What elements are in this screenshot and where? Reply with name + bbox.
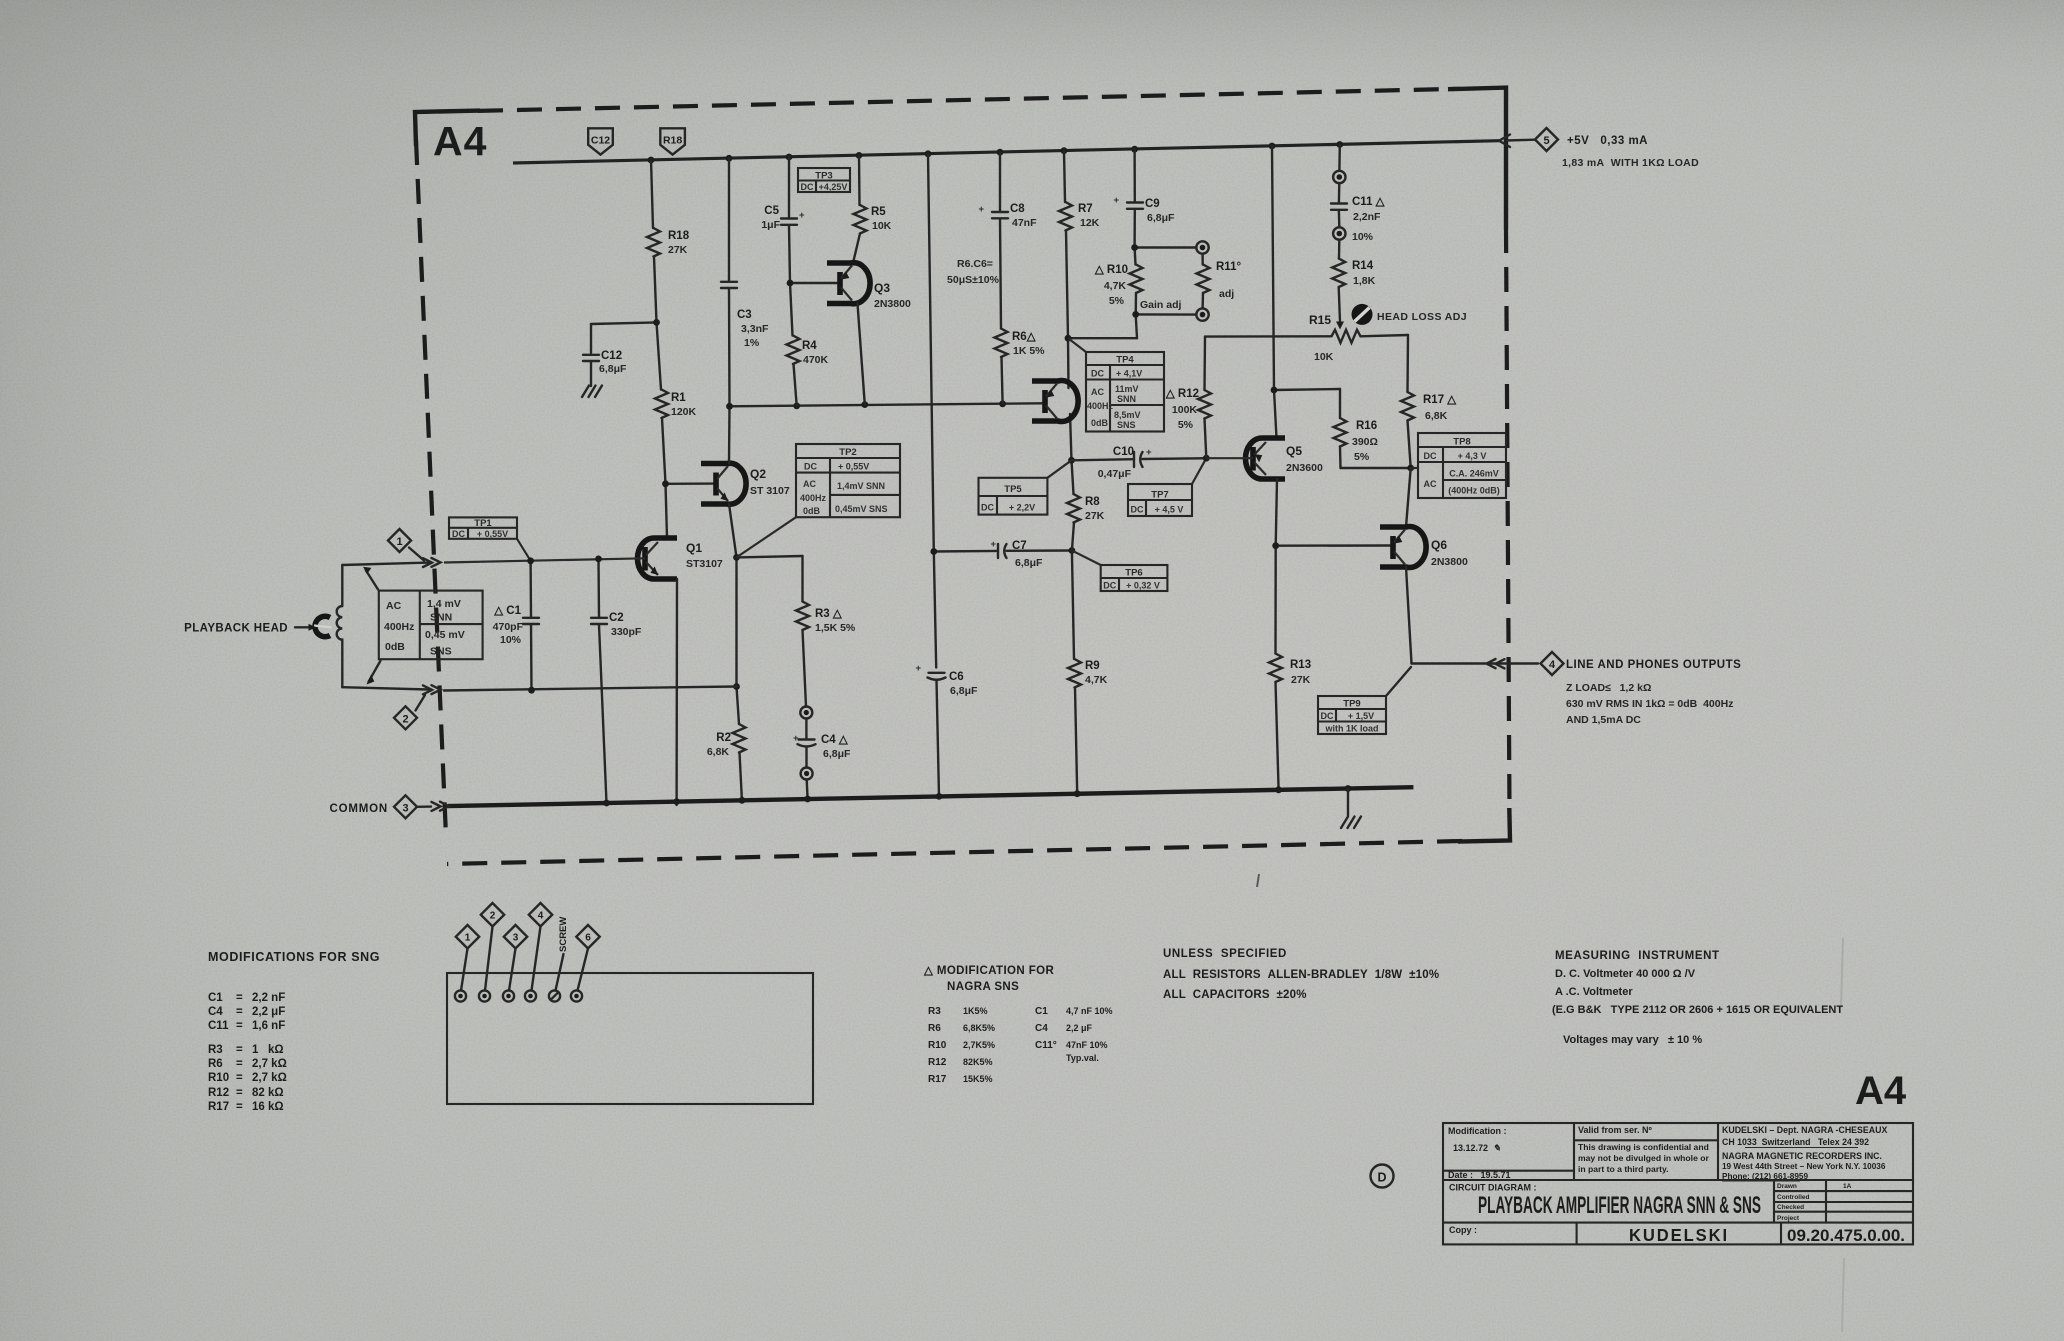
svg-text:C12: C12	[591, 135, 610, 147]
svg-text:UNLESS SPECIFIED: UNLESS SPECIFIED	[1163, 948, 1287, 960]
svg-text:PLAYBACK AMPLIFIER NAGRA SN: PLAYBACK AMPLIFIER NAGRA SNN & SNS	[1478, 1192, 1761, 1219]
svg-text:R9: R9	[1085, 660, 1100, 672]
svg-text:R10: R10	[928, 1040, 947, 1051]
svg-text:C6: C6	[949, 671, 964, 683]
svg-text:may not be divulged in whole o: may not be divulged in whole or	[1578, 1153, 1709, 1163]
svg-text:ST3107: ST3107	[686, 558, 723, 570]
svg-text:2,2 μF: 2,2 μF	[1066, 1023, 1093, 1033]
svg-text:1,4 mV: 1,4 mV	[427, 598, 461, 610]
svg-text:C8: C8	[1010, 203, 1025, 215]
svg-text:C9: C9	[1145, 198, 1160, 210]
svg-text:6,8μF: 6,8μF	[599, 363, 627, 375]
svg-text:1,6 nF: 1,6 nF	[252, 1020, 285, 1032]
svg-text:10K: 10K	[1314, 351, 1334, 363]
svg-text:Checked: Checked	[1777, 1204, 1804, 1211]
svg-text:NAGRA SNS: NAGRA SNS	[947, 981, 1019, 993]
svg-text:R17: R17	[928, 1074, 947, 1085]
svg-text:AC: AC	[803, 479, 816, 489]
svg-text:in part to a third party.: in part to a third party.	[1578, 1164, 1669, 1174]
svg-text:0,45 mV: 0,45 mV	[425, 629, 465, 641]
svg-text:DC: DC	[801, 182, 814, 192]
svg-text:11mV: 11mV	[1115, 384, 1139, 394]
svg-text:R8: R8	[1085, 496, 1100, 508]
svg-text:Q3: Q3	[874, 281, 890, 295]
svg-text:R6: R6	[928, 1023, 941, 1034]
svg-text:82K5%: 82K5%	[963, 1057, 993, 1067]
svg-text:△ R12: △ R12	[1165, 388, 1199, 400]
svg-text:AND 1,5mA DC: AND 1,5mA DC	[1566, 714, 1641, 726]
svg-text:TP3: TP3	[815, 171, 832, 182]
svg-text:4,7 nF 10%: 4,7 nF 10%	[1066, 1006, 1113, 1016]
svg-text:C3: C3	[737, 309, 752, 321]
svg-text:+: +	[1146, 447, 1152, 458]
svg-text:Copy :: Copy :	[1449, 1225, 1477, 1235]
svg-text:DC: DC	[1103, 581, 1116, 591]
svg-text:5%: 5%	[1109, 295, 1125, 307]
svg-text:R12: R12	[208, 1087, 229, 1099]
svg-text:C10: C10	[1113, 446, 1134, 458]
svg-text:LINE AND PHONES OUTPUTS: LINE AND PHONES OUTPUTS	[1566, 659, 1741, 671]
svg-text:10K: 10K	[872, 220, 892, 232]
svg-text:82 kΩ: 82 kΩ	[252, 1087, 284, 1099]
svg-text:1,83 mA WITH 1KΩ LOAD: 1,83 mA WITH 1KΩ LOAD	[1562, 157, 1699, 169]
svg-text:(E.G B&K TYPE 2112 OR 26: (E.G B&K TYPE 2112 OR 2606 + 1615 OR EQU…	[1552, 1004, 1843, 1016]
svg-text:1 kΩ: 1 kΩ	[252, 1044, 284, 1056]
svg-text:100K: 100K	[1172, 404, 1198, 416]
svg-text:AC: AC	[1091, 387, 1104, 397]
svg-text:R16: R16	[1356, 420, 1377, 432]
svg-text:R13: R13	[1290, 659, 1311, 671]
svg-text:6: 6	[585, 933, 591, 944]
svg-text:DC: DC	[981, 503, 994, 513]
svg-text:DC: DC	[1131, 505, 1144, 515]
svg-text:400Hz: 400Hz	[1087, 401, 1114, 411]
svg-text:47nF 10%: 47nF 10%	[1066, 1040, 1108, 1050]
svg-text:adj: adj	[1219, 288, 1234, 300]
svg-text:5%: 5%	[1354, 451, 1370, 463]
svg-text:Phone: (212) 661-8959: Phone: (212) 661-8959	[1722, 1172, 1808, 1181]
svg-text:470pF: 470pF	[493, 621, 524, 633]
svg-text:R6: R6	[208, 1058, 223, 1070]
svg-text:+: +	[990, 539, 996, 550]
svg-text:C11 △: C11 △	[1352, 196, 1386, 208]
svg-text:C11°: C11°	[1035, 1040, 1057, 1051]
svg-text:27K: 27K	[1085, 510, 1105, 522]
svg-text:1K5%: 1K5%	[963, 1006, 988, 1016]
svg-text:C4: C4	[1035, 1023, 1048, 1034]
svg-text:6,8K: 6,8K	[1425, 410, 1448, 422]
svg-text:Z LOAD≤ 1,2 kΩ: Z LOAD≤ 1,2 kΩ	[1566, 682, 1651, 694]
svg-text:Project: Project	[1777, 1215, 1800, 1222]
svg-text:10%: 10%	[500, 634, 522, 646]
svg-text:+ 0,55V: + 0,55V	[838, 462, 869, 472]
svg-text:Voltages may vary ± 10 %: Voltages may vary ± 10 %	[1563, 1034, 1702, 1046]
svg-text:10%: 10%	[1352, 231, 1374, 243]
svg-text:SNN: SNN	[430, 612, 452, 624]
svg-text:120K: 120K	[671, 406, 697, 418]
svg-text:+ 1,5V: + 1,5V	[1348, 711, 1374, 721]
svg-text:HEAD LOSS ADJ: HEAD LOSS ADJ	[1377, 311, 1467, 323]
svg-text:2,7K5%: 2,7K5%	[963, 1040, 995, 1050]
svg-text:6,8μF: 6,8μF	[950, 685, 978, 697]
svg-text:+ 0,32 V: + 0,32 V	[1126, 581, 1160, 591]
svg-text:DC: DC	[1424, 451, 1437, 461]
svg-text:1: 1	[396, 536, 402, 548]
svg-text:400Hz: 400Hz	[800, 493, 827, 503]
svg-text:47nF: 47nF	[1012, 217, 1037, 229]
svg-text:Gain adj: Gain adj	[1140, 299, 1182, 311]
svg-text:△ R10: △ R10	[1094, 264, 1128, 276]
svg-text:R11°: R11°	[1216, 261, 1241, 273]
svg-text:470K: 470K	[803, 354, 829, 366]
svg-text:This drawing is confidential a: This drawing is confidential and	[1578, 1142, 1709, 1152]
svg-text:=: =	[236, 1020, 243, 1032]
svg-text:=: =	[236, 992, 243, 1004]
svg-text:KUDELSKI: KUDELSKI	[1629, 1225, 1729, 1245]
svg-text:A .C. Voltmeter: A .C. Voltmeter	[1555, 986, 1633, 998]
svg-text:CH 1033 Switzerland Telex 2: CH 1033 Switzerland Telex 24 392	[1722, 1137, 1869, 1147]
svg-text:R2: R2	[716, 732, 731, 744]
svg-text:+: +	[978, 204, 984, 215]
svg-text:D. C. Voltmeter 40 000 Ω /V: D. C. Voltmeter 40 000 Ω /V	[1555, 968, 1696, 980]
svg-text:+: +	[915, 663, 921, 674]
svg-text:ALL RESISTORS ALLEN-BRADLEY: ALL RESISTORS ALLEN-BRADLEY 1/8W ±10%	[1163, 969, 1439, 981]
svg-text:R18: R18	[663, 135, 682, 147]
svg-text:1K 5%: 1K 5%	[1013, 345, 1045, 357]
svg-text:DC: DC	[1091, 369, 1104, 379]
svg-text:Q1: Q1	[686, 541, 702, 555]
svg-text:2,7 kΩ: 2,7 kΩ	[252, 1058, 287, 1070]
svg-text:27K: 27K	[668, 244, 688, 256]
svg-text:8,5mV: 8,5mV	[1114, 410, 1141, 420]
svg-text:1,4mV SNN: 1,4mV SNN	[837, 481, 885, 491]
svg-text:1: 1	[465, 933, 471, 944]
svg-text:+5V 0,33 mA: +5V 0,33 mA	[1567, 135, 1648, 147]
svg-text:ALL CAPACITORS ±20%: ALL CAPACITORS ±20%	[1163, 989, 1307, 1001]
svg-text:C.A. 246mV: C.A. 246mV	[1449, 469, 1499, 479]
svg-text:Q2: Q2	[750, 467, 766, 481]
svg-text:1A: 1A	[1843, 1183, 1852, 1190]
svg-text:Date : 19.5.71: Date : 19.5.71	[1448, 1170, 1511, 1180]
svg-text:R12: R12	[928, 1057, 947, 1068]
svg-text:R6△: R6△	[1012, 331, 1037, 343]
svg-text:4,7K: 4,7K	[1085, 674, 1108, 686]
svg-text:6,8μF: 6,8μF	[1015, 557, 1043, 569]
svg-text:C1: C1	[208, 992, 223, 1004]
svg-text:TP4: TP4	[1116, 355, 1134, 366]
svg-text:R3 △: R3 △	[815, 608, 843, 620]
svg-text:6,8K5%: 6,8K5%	[963, 1023, 995, 1033]
svg-text:C11: C11	[208, 1020, 229, 1032]
svg-text:Valid from ser. Nº: Valid from ser. Nº	[1578, 1125, 1653, 1135]
svg-text:AC: AC	[386, 600, 402, 612]
svg-text:SNN: SNN	[1117, 394, 1136, 404]
svg-text:R14: R14	[1352, 260, 1374, 272]
svg-text:=: =	[236, 1044, 243, 1056]
svg-text:A4: A4	[433, 118, 487, 164]
svg-text:=: =	[236, 1058, 243, 1070]
svg-text:0,47μF: 0,47μF	[1098, 468, 1132, 480]
svg-text:R18: R18	[668, 230, 690, 242]
svg-text:1μF: 1μF	[761, 219, 780, 231]
svg-text:+: +	[799, 210, 805, 221]
svg-text:△ MODIFICATION FOR: △ MODIFICATION FOR	[923, 965, 1054, 977]
svg-text:R4: R4	[802, 340, 817, 352]
svg-text:Controlled: Controlled	[1777, 1194, 1810, 1201]
svg-text:△ C1: △ C1	[493, 605, 521, 617]
svg-text:TP9: TP9	[1343, 699, 1360, 710]
svg-text:Typ.val.: Typ.val.	[1066, 1053, 1099, 1063]
svg-text:Q6: Q6	[1431, 538, 1447, 552]
svg-text:2,2 nF: 2,2 nF	[252, 992, 285, 1004]
svg-text:C1: C1	[1035, 1006, 1048, 1017]
svg-text:TP8: TP8	[1453, 437, 1470, 448]
svg-text:DC: DC	[452, 529, 465, 539]
svg-text:(400Hz 0dB): (400Hz 0dB)	[1448, 486, 1500, 496]
svg-text:+ 4,1V: + 4,1V	[1116, 369, 1142, 379]
svg-text:15K5%: 15K5%	[963, 1074, 993, 1084]
svg-text:A4: A4	[1855, 1069, 1907, 1113]
svg-text:SNS: SNS	[430, 646, 452, 658]
svg-text:MEASURING INSTRUMENT: MEASURING INSTRUMENT	[1555, 950, 1720, 962]
svg-text:R6.C6=: R6.C6=	[957, 258, 993, 270]
svg-text:2: 2	[402, 713, 408, 725]
svg-text:400Hz: 400Hz	[384, 621, 414, 633]
svg-text:6,8K: 6,8K	[707, 746, 730, 758]
svg-text:R1: R1	[671, 392, 686, 404]
svg-text:3,3nF: 3,3nF	[741, 323, 769, 335]
svg-text:2N3800: 2N3800	[1431, 556, 1468, 568]
svg-text:PLAYBACK HEAD: PLAYBACK HEAD	[184, 623, 288, 635]
svg-text:=: =	[236, 1101, 243, 1113]
svg-text:D: D	[1377, 1171, 1386, 1185]
svg-text:R7: R7	[1078, 203, 1093, 215]
svg-text:330pF: 330pF	[611, 626, 642, 638]
svg-text:R17: R17	[208, 1101, 229, 1113]
svg-text:630 mV RMS IN 1kΩ = 0dB 400Hz: 630 mV RMS IN 1kΩ = 0dB 400Hz	[1566, 698, 1733, 710]
svg-text:TP7: TP7	[1151, 490, 1168, 501]
svg-text:1,5K 5%: 1,5K 5%	[815, 622, 856, 634]
svg-text:TP5: TP5	[1004, 484, 1022, 495]
svg-text:6,8μF: 6,8μF	[1147, 212, 1175, 224]
svg-text:+ 0,55V: + 0,55V	[477, 529, 508, 539]
svg-text:5: 5	[1543, 135, 1549, 147]
svg-text:+ 2,2V: + 2,2V	[1009, 503, 1035, 513]
svg-text:2N3800: 2N3800	[874, 298, 911, 310]
svg-text:50μS±10%: 50μS±10%	[947, 274, 1000, 286]
svg-text:27K: 27K	[1291, 674, 1311, 686]
svg-text:=: =	[236, 1006, 243, 1018]
svg-text:2,2 μF: 2,2 μF	[252, 1006, 285, 1018]
svg-text:13.12.72 ✎: 13.12.72 ✎	[1453, 1143, 1501, 1153]
svg-text:4: 4	[538, 911, 544, 922]
svg-text:+ 4,5 V: + 4,5 V	[1155, 505, 1184, 515]
svg-text:=: =	[236, 1087, 243, 1099]
svg-text:R3: R3	[208, 1044, 223, 1056]
svg-text:Q5: Q5	[1286, 444, 1302, 458]
svg-text:COMMON: COMMON	[330, 803, 388, 815]
svg-text:MODIFICATIONS FOR SNG: MODIFICATIONS FOR SNG	[208, 950, 380, 964]
svg-text:+4,25V: +4,25V	[819, 182, 848, 192]
svg-text:Drawn: Drawn	[1777, 1183, 1797, 1190]
svg-text:SCREW: SCREW	[558, 917, 569, 952]
svg-text:Modification :: Modification :	[1448, 1126, 1507, 1136]
svg-text:R17 △: R17 △	[1423, 394, 1457, 406]
svg-text:+ 4,3 V: + 4,3 V	[1458, 451, 1487, 461]
svg-text:1,8K: 1,8K	[1353, 275, 1376, 287]
svg-text:6,8μF: 6,8μF	[823, 748, 851, 760]
svg-text:TP2: TP2	[839, 447, 856, 458]
svg-text:C7: C7	[1012, 540, 1027, 552]
svg-text:CIRCUIT DIAGRAM :: CIRCUIT DIAGRAM :	[1449, 1183, 1537, 1193]
svg-text:0dB: 0dB	[385, 641, 405, 653]
svg-text:09.20.475.0.00.: 09.20.475.0.00.	[1787, 1227, 1905, 1245]
svg-text:16 kΩ: 16 kΩ	[252, 1101, 284, 1113]
svg-text:2,7 kΩ: 2,7 kΩ	[252, 1072, 287, 1084]
svg-text:C4 △: C4 △	[821, 734, 849, 746]
svg-text:C4: C4	[208, 1006, 223, 1018]
svg-text:1%: 1%	[744, 337, 760, 349]
svg-text:19 West 44th Street – New Yor: 19 West 44th Street – New York N.Y. 1003…	[1722, 1162, 1886, 1171]
svg-text:R10: R10	[208, 1072, 229, 1084]
svg-text:2N3600: 2N3600	[1286, 462, 1323, 474]
svg-text:3: 3	[513, 933, 519, 944]
svg-text:C2: C2	[609, 612, 624, 624]
svg-text:ST 3107: ST 3107	[750, 485, 790, 497]
svg-text:R15: R15	[1309, 313, 1331, 327]
svg-text:DC: DC	[804, 462, 817, 472]
svg-text:C5: C5	[764, 205, 779, 217]
svg-text:SNS: SNS	[1117, 420, 1136, 430]
svg-text:4: 4	[1549, 659, 1556, 671]
svg-text:12K: 12K	[1080, 217, 1100, 229]
svg-text:=: =	[236, 1072, 243, 1084]
svg-text:+: +	[1113, 195, 1119, 206]
svg-text:R5: R5	[871, 206, 886, 218]
svg-text:5%: 5%	[1178, 419, 1194, 431]
svg-text:TP1: TP1	[474, 518, 492, 529]
svg-text:0dB: 0dB	[1091, 418, 1109, 428]
svg-text:DC: DC	[1321, 711, 1334, 721]
svg-text:KUDELSKI – Dept. NAGRA -CHESEA: KUDELSKI – Dept. NAGRA -CHESEAUX	[1722, 1125, 1887, 1135]
svg-text:AC: AC	[1424, 479, 1437, 489]
svg-text:390Ω: 390Ω	[1352, 436, 1378, 448]
svg-text:0,45mV SNS: 0,45mV SNS	[835, 504, 888, 514]
svg-text:0dB: 0dB	[803, 506, 821, 516]
svg-text:with 1K load: with 1K load	[1324, 724, 1378, 734]
svg-text:NAGRA MAGNETIC RECORDERS INC.: NAGRA MAGNETIC RECORDERS INC.	[1722, 1151, 1882, 1161]
svg-text:R3: R3	[928, 1006, 941, 1017]
svg-text:TP6: TP6	[1125, 568, 1142, 579]
svg-text:2: 2	[490, 911, 496, 922]
svg-text:2,2nF: 2,2nF	[1353, 211, 1381, 223]
svg-text:3: 3	[402, 802, 408, 814]
svg-text:4,7K: 4,7K	[1104, 280, 1127, 292]
svg-text:C12: C12	[601, 350, 622, 362]
svg-text:+: +	[793, 733, 799, 744]
